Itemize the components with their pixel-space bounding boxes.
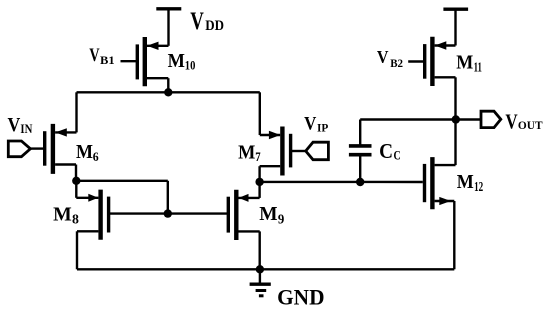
ground symbol [250, 269, 271, 296]
svg-text:10: 10 [185, 58, 196, 73]
svg-text:12: 12 [474, 179, 483, 194]
transistor M12 (NMOS) [425, 157, 456, 269]
label VB1 [89, 46, 115, 67]
svg-text:V: V [190, 8, 204, 35]
label M9 [259, 204, 284, 226]
node ground tap [256, 265, 264, 273]
svg-text:M: M [457, 172, 474, 193]
node M6 drain [72, 177, 80, 185]
svg-text:11: 11 [474, 60, 482, 75]
svg-text:M: M [238, 143, 255, 164]
svg-text:V: V [8, 114, 21, 136]
svg-text:M: M [168, 50, 185, 72]
wire V_B1 to M10 gate [121, 60, 138, 62]
node output [452, 115, 460, 123]
label M12 [457, 172, 484, 194]
wire M7 gate to VIP [291, 150, 306, 152]
wire CC top to output node [360, 118, 456, 120]
wire M6 drain to mirror gates (horizontal) [76, 180, 168, 182]
power symbol VDD (right supply bar) [443, 9, 468, 45]
label M11 [456, 53, 482, 75]
svg-text:6: 6 [93, 149, 99, 164]
transistor M8 (NMOS, mirrored) [76, 190, 108, 270]
label M8 [53, 204, 79, 226]
wire VB2 to M11 gate [408, 60, 425, 62]
transistor M9 (NMOS) [228, 190, 259, 269]
svg-text:V: V [89, 46, 100, 66]
svg-text:C: C [394, 148, 401, 162]
svg-text:B2: B2 [390, 58, 403, 70]
wire rail to M7 source [259, 92, 261, 135]
wire VIN to M6 gate [30, 147, 44, 149]
power symbol VDD (left supply bar) [156, 9, 181, 46]
wire output node to VOUT port [456, 118, 481, 120]
svg-text:8: 8 [72, 211, 79, 226]
node under M10 drain [164, 88, 172, 96]
svg-text:OUT: OUT [518, 118, 543, 132]
label VOUT [505, 110, 542, 134]
transistor M6 (PMOS) [45, 124, 77, 181]
svg-text:M: M [76, 141, 93, 163]
svg-text:M: M [456, 53, 473, 74]
wire first stage output to M12 gate [260, 181, 423, 184]
wire rail to M6 source [75, 92, 77, 132]
svg-text:7: 7 [255, 150, 260, 164]
label VIN [8, 114, 33, 136]
transistor M11 (PMOS) [425, 37, 456, 120]
svg-text:IP: IP [317, 120, 328, 134]
node CC bottom tap [356, 178, 364, 186]
transistor M10 (PMOS) [137, 37, 168, 92]
svg-text:V: V [505, 110, 517, 134]
label VB2 [377, 47, 403, 70]
wire ground rail [77, 268, 454, 270]
wire mirror diode connection (vertical) [167, 181, 169, 214]
node M7 drain (first stage output) [255, 178, 263, 186]
label VIP [304, 114, 328, 135]
label M6 [76, 141, 99, 164]
port VIN [8, 141, 30, 157]
port VOUT [481, 111, 501, 127]
label VDD [190, 8, 224, 35]
wire M7 drain down to M9 drain [258, 182, 260, 198]
svg-text:M: M [259, 204, 277, 225]
node on mirror gate line [164, 209, 172, 217]
svg-text:V: V [304, 114, 316, 135]
port VIP [306, 142, 329, 160]
svg-text:IN: IN [20, 122, 32, 136]
svg-text:DD: DD [205, 18, 224, 34]
svg-text:9: 9 [278, 211, 285, 226]
svg-text:GND: GND [277, 285, 324, 310]
label M7 [238, 143, 261, 164]
capacitor CC [349, 120, 372, 183]
svg-text:C: C [379, 139, 393, 163]
svg-text:M: M [53, 204, 72, 225]
wire first-stage top rail [77, 91, 260, 93]
label GND [277, 285, 324, 310]
wire mirror gate line M8-M9 [109, 212, 229, 214]
wire output node to M12 drain [454, 120, 456, 166]
label CC [379, 139, 401, 163]
wire M6 drain down to M8 drain [75, 181, 77, 198]
svg-text:B1: B1 [100, 55, 115, 67]
label M10 [168, 50, 196, 73]
svg-text:V: V [377, 47, 389, 67]
transistor M7 (PMOS, mirrored) [260, 127, 291, 182]
